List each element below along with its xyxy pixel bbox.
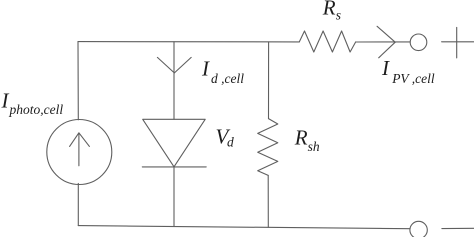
plus terminal mark (442, 27, 474, 58)
wire diode branch upper (173, 42, 175, 120)
wire Rsh branch upper (268, 42, 270, 119)
svg-text:PV ,cell: PV ,cell (391, 71, 435, 86)
svg-text:d: d (227, 135, 234, 150)
wire bottom right lead (442, 227, 474, 229)
resistor Rsh zigzag (258, 119, 278, 176)
svg-text:s: s (336, 8, 341, 23)
wire left rail lower (77, 183, 79, 225)
wire Rsh branch lower (267, 175, 269, 227)
label I_photo,cell (1, 89, 64, 117)
wire bottom bus (78, 226, 410, 229)
svg-text:photo,cell: photo,cell (9, 102, 64, 117)
svg-text:I: I (201, 56, 210, 80)
svg-text:R: R (294, 126, 308, 150)
label R_s (322, 0, 341, 23)
svg-text:d ,cell: d ,cell (211, 71, 244, 86)
wire diode branch lower (173, 167, 175, 227)
diode cathode bar (142, 166, 206, 168)
label I_PV,cell (381, 56, 435, 86)
terminal circle top (410, 34, 427, 51)
label V_d (216, 125, 235, 150)
svg-text:I: I (381, 56, 390, 80)
label R_sh (294, 126, 320, 154)
diode D triangle (143, 119, 206, 167)
arrow I_d,cell down (157, 57, 191, 73)
wire top bus (78, 41, 299, 43)
resistor Rs zigzag (299, 31, 355, 52)
svg-text:R: R (322, 0, 336, 19)
current source arrow (70, 133, 90, 166)
terminal circle bottom (410, 221, 427, 238)
wire left rail upper (77, 42, 79, 120)
svg-text:I: I (1, 89, 10, 113)
arrow I_PV,cell right (377, 26, 395, 58)
wire Rs to terminal (356, 41, 411, 43)
label I_d,cell (201, 56, 244, 86)
svg-text:sh: sh (308, 139, 320, 154)
current source I_photo circle (47, 120, 112, 185)
